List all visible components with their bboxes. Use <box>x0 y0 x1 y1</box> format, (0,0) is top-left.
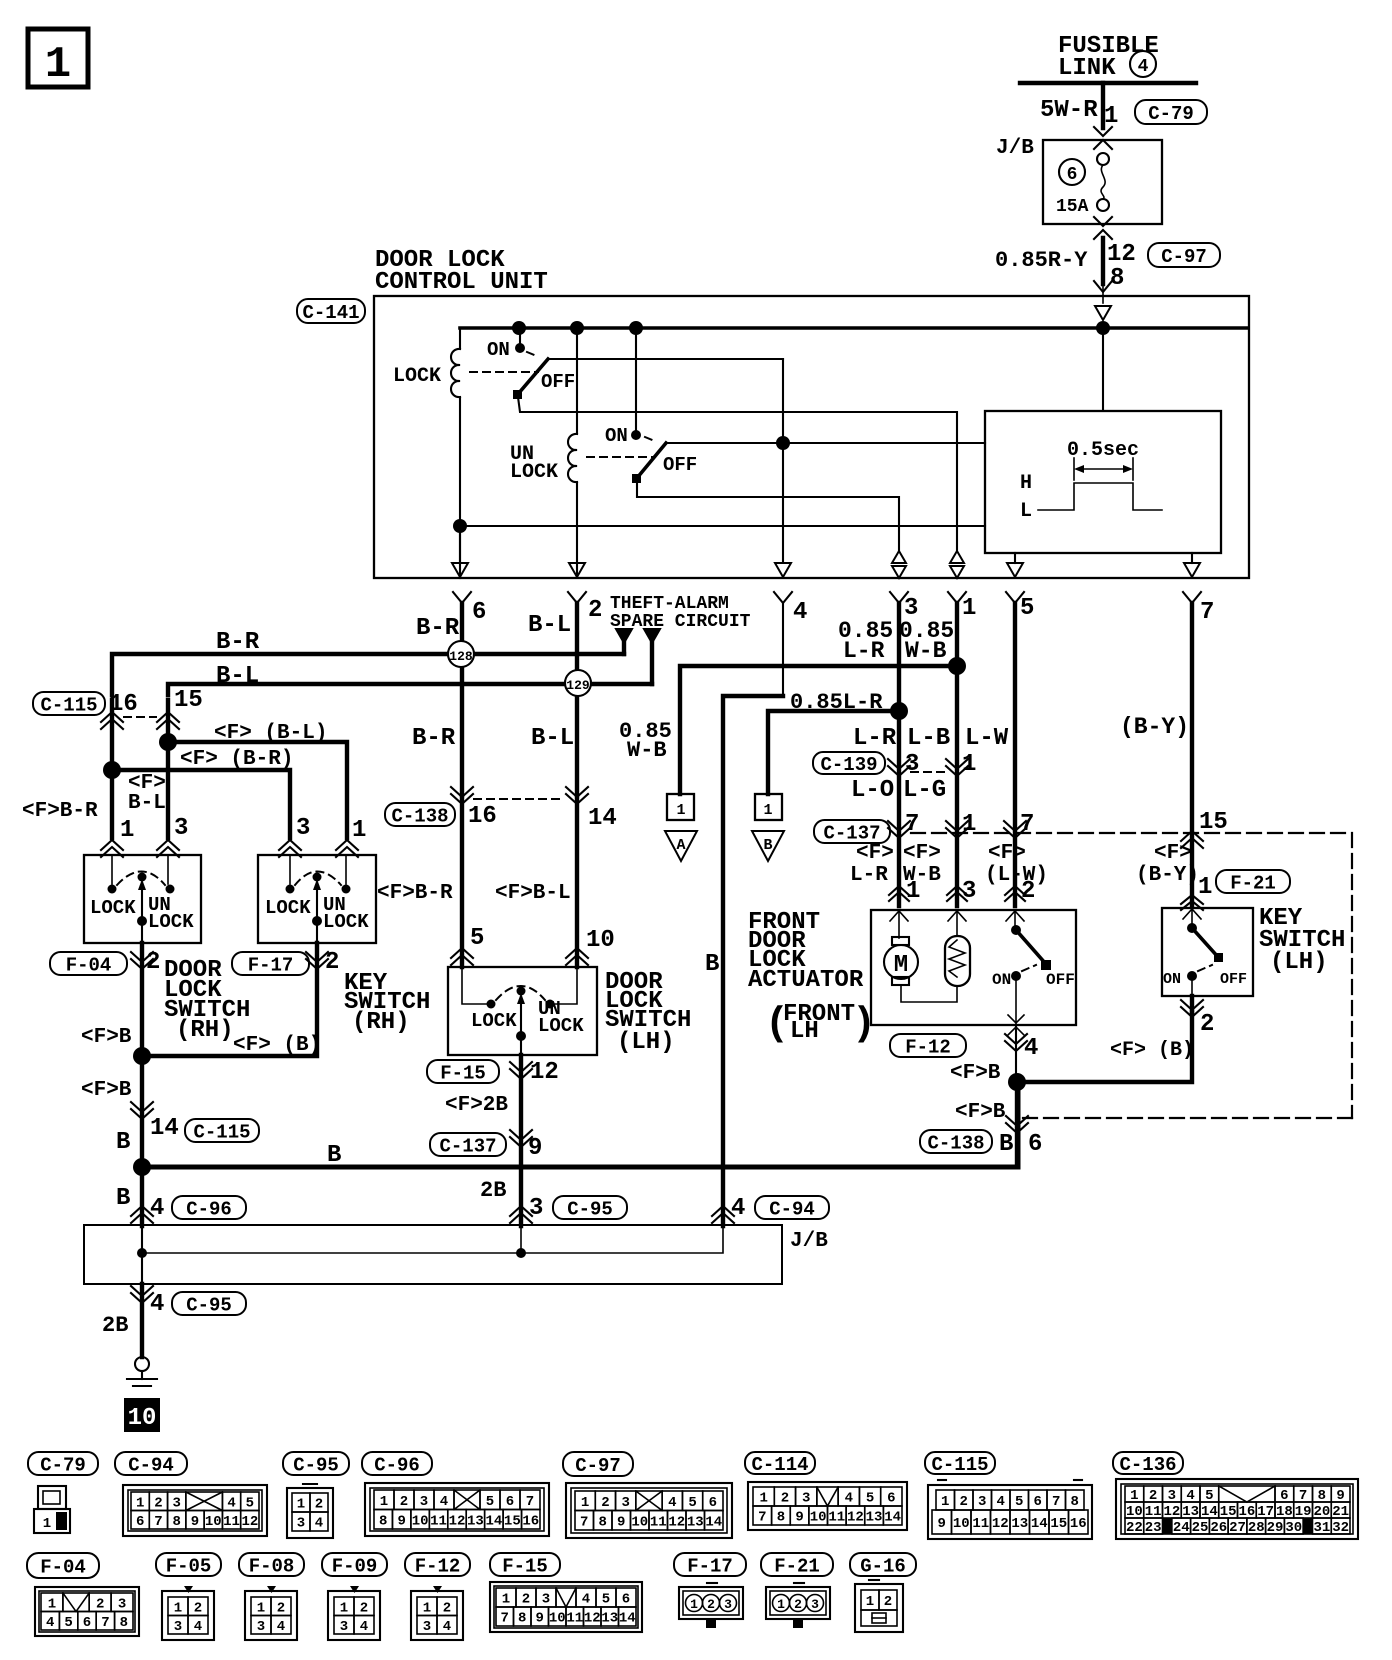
svg-text:C-138: C-138 <box>391 805 448 827</box>
svg-text:30: 30 <box>1285 1520 1302 1536</box>
wire B down to ground bus <box>140 1056 144 1226</box>
legend F-12 label <box>405 1553 470 1576</box>
svg-text:11: 11 <box>972 1516 989 1532</box>
J/B entry 4 C-96 <box>131 1206 153 1216</box>
svg-text:5: 5 <box>1020 595 1034 622</box>
lock relay ON contact <box>519 328 521 348</box>
svg-text:CONTROL UNIT: CONTROL UNIT <box>375 269 548 296</box>
wire F B-R to key switch RH <box>112 770 290 838</box>
wire to door lock switch RH pin1 <box>110 700 114 838</box>
node: bus dot 2 <box>570 321 584 335</box>
svg-text:LOCK: LOCK <box>323 911 369 933</box>
svg-text:16: 16 <box>468 803 497 830</box>
svg-text:14: 14 <box>619 1611 636 1627</box>
svg-text:<F>: <F> <box>856 842 894 865</box>
svg-text:3: 3 <box>621 1495 629 1511</box>
svg-text:<F>: <F> <box>903 842 941 865</box>
node jb1 <box>137 1248 147 1258</box>
theft-alarm stub arrow 1 <box>616 629 632 643</box>
svg-text:F-04: F-04 <box>66 954 112 976</box>
svg-text:2: 2 <box>154 1495 162 1511</box>
J/B exit 4 C-95 <box>131 1286 153 1296</box>
svg-text:2: 2 <box>960 1494 968 1510</box>
svg-text:C-114: C-114 <box>751 1454 808 1476</box>
svg-text:2: 2 <box>315 1497 323 1513</box>
svg-text:7: 7 <box>101 1615 109 1631</box>
legend C-79 connector <box>38 1486 66 1509</box>
svg-text:3: 3 <box>296 815 310 842</box>
node B bus <box>133 1158 151 1176</box>
svg-text:4: 4 <box>793 599 807 626</box>
svg-text:LOCK: LOCK <box>471 1010 517 1032</box>
svg-text:1: 1 <box>866 1594 874 1610</box>
svg-text:1: 1 <box>502 1592 510 1608</box>
svg-text:F-17: F-17 <box>248 954 294 976</box>
C-97 label <box>1148 243 1220 267</box>
svg-text:<F>B: <F>B <box>81 1026 132 1049</box>
junction block J/B (fuse 6) <box>1043 140 1162 224</box>
svg-text:C-95: C-95 <box>293 1454 339 1476</box>
svg-text:7: 7 <box>1200 599 1214 626</box>
legend F-15 connector <box>490 1582 642 1632</box>
actuator switch <box>1014 910 1016 929</box>
svg-text:2B: 2B <box>480 1178 506 1203</box>
svg-text:ON: ON <box>605 425 628 447</box>
svg-text:1: 1 <box>380 1494 388 1510</box>
svg-text:LOCK: LOCK <box>148 911 194 933</box>
svg-text:L: L <box>1020 500 1032 523</box>
svg-text:6: 6 <box>622 1592 630 1608</box>
svg-text:6: 6 <box>506 1494 514 1510</box>
svg-text:29: 29 <box>1267 1520 1284 1536</box>
svg-text:1: 1 <box>962 751 976 778</box>
svg-text:<F>B-R: <F>B-R <box>377 882 453 905</box>
pin 1 <box>948 592 966 603</box>
svg-text:4: 4 <box>227 1495 235 1511</box>
terminal box 1 (B) <box>755 794 782 820</box>
svg-text:1: 1 <box>340 1600 348 1616</box>
svg-text:1: 1 <box>257 1600 265 1616</box>
svg-text:4: 4 <box>443 1619 451 1635</box>
svg-text:0.85L-R: 0.85L-R <box>790 690 883 715</box>
wire B ground bus horizontal <box>142 1082 1018 1167</box>
key switch LH box F-21 <box>1162 908 1253 996</box>
svg-text:13: 13 <box>467 1513 484 1529</box>
svg-text:11: 11 <box>650 1514 667 1530</box>
svg-text:9: 9 <box>191 1514 199 1530</box>
svg-text:6: 6 <box>709 1495 717 1511</box>
svg-text:L-R: L-R <box>853 725 897 752</box>
svg-text:F-08: F-08 <box>249 1555 295 1577</box>
svg-text:LOCK: LOCK <box>393 365 441 388</box>
svg-text:10: 10 <box>412 1513 429 1529</box>
contacts <box>108 885 117 894</box>
svg-text:LOCK: LOCK <box>90 897 136 919</box>
svg-text:12: 12 <box>584 1611 601 1627</box>
svg-text:11: 11 <box>430 1513 447 1529</box>
svg-text:10: 10 <box>810 1510 827 1526</box>
lock relay blade <box>518 359 548 394</box>
timer box <box>985 411 1221 553</box>
legend C-94 label <box>115 1452 187 1475</box>
ground ref box 10 <box>124 1398 160 1432</box>
timer arrow span <box>1073 458 1075 480</box>
svg-text:C-137: C-137 <box>439 1135 496 1157</box>
svg-text:11: 11 <box>566 1611 583 1627</box>
svg-text:<F>B-L: <F>B-L <box>495 882 571 905</box>
svg-text:5: 5 <box>470 925 484 952</box>
connector C-115 pin 14 <box>131 1102 153 1112</box>
wire 2B to ground <box>140 1284 144 1357</box>
svg-text:10: 10 <box>586 927 615 954</box>
svg-text:7: 7 <box>154 1514 162 1530</box>
svg-text:B-L: B-L <box>528 612 571 639</box>
svg-text:B: B <box>999 1131 1013 1158</box>
J/B internal bus <box>142 1226 723 1253</box>
svg-text:12: 12 <box>449 1513 466 1529</box>
svg-text:7: 7 <box>1052 1494 1060 1510</box>
svg-text:5: 5 <box>246 1495 254 1511</box>
svg-text:C-95: C-95 <box>186 1294 232 1316</box>
control unit box C-141 <box>374 296 1249 578</box>
svg-text:2: 2 <box>781 1491 789 1507</box>
svg-text:2B: 2B <box>102 1313 128 1338</box>
wire L-W from pin 5 <box>1013 603 1017 906</box>
svg-text:B: B <box>327 1142 341 1169</box>
svg-text:13: 13 <box>1011 1516 1028 1532</box>
svg-text:F-15: F-15 <box>502 1555 548 1577</box>
svg-text:4: 4 <box>1138 57 1149 77</box>
svg-text:14: 14 <box>485 1513 502 1529</box>
svg-text:31: 31 <box>1313 1520 1330 1536</box>
F-21 pin 1 <box>1181 895 1203 904</box>
svg-text:10: 10 <box>128 1405 157 1432</box>
svg-text:6: 6 <box>1028 1131 1042 1158</box>
svg-text:2: 2 <box>194 1600 202 1616</box>
svg-text:4: 4 <box>194 1619 202 1635</box>
svg-text:15A: 15A <box>1056 197 1089 217</box>
legend F-08 label <box>239 1553 304 1576</box>
svg-text:10: 10 <box>953 1516 970 1532</box>
exit F-15 <box>510 1062 532 1072</box>
svg-text:F-12: F-12 <box>415 1555 461 1577</box>
svg-text:3: 3 <box>724 1597 732 1612</box>
legend G-16 label <box>850 1553 916 1576</box>
svg-text:W-B: W-B <box>627 738 667 763</box>
svg-text:2: 2 <box>588 597 602 624</box>
svg-text:OFF: OFF <box>541 371 575 393</box>
node: bus dot 3 <box>629 321 643 335</box>
legend C-97 label <box>563 1452 633 1476</box>
svg-text:8: 8 <box>1071 1494 1079 1510</box>
svg-text:15: 15 <box>174 687 203 714</box>
svg-text:8: 8 <box>599 1514 607 1530</box>
svg-text:14: 14 <box>884 1510 901 1526</box>
svg-text:3: 3 <box>340 1619 348 1635</box>
legend F-09 connector <box>350 1586 359 1593</box>
node jb2 <box>516 1248 526 1258</box>
svg-text:2: 2 <box>443 1600 451 1616</box>
legend C-114 label <box>745 1452 815 1474</box>
svg-text:1: 1 <box>297 1497 305 1513</box>
legend F-17 label <box>674 1553 746 1576</box>
svg-text:5: 5 <box>64 1615 72 1631</box>
wire B-L from pin 2 <box>575 603 579 795</box>
exit F-12 <box>1008 1015 1024 1023</box>
theft-alarm stub arrow 2 <box>644 629 660 643</box>
actuator pin 2 <box>1005 886 1025 895</box>
pin 4 <box>774 592 792 603</box>
svg-text:<F> (B): <F> (B) <box>1110 1039 1194 1062</box>
svg-text:13: 13 <box>866 1510 883 1526</box>
svg-text:1: 1 <box>43 1516 51 1532</box>
svg-text:9: 9 <box>397 1513 405 1529</box>
unlock relay ON contact <box>635 328 637 433</box>
svg-text:L-R: L-R <box>850 864 888 887</box>
svg-text:12: 12 <box>847 1510 864 1526</box>
svg-text:14: 14 <box>588 805 617 832</box>
exit key switch LH <box>1181 1000 1203 1010</box>
svg-text:<F>: <F> <box>988 842 1026 865</box>
svg-text:2: 2 <box>146 949 160 976</box>
svg-text:W-B: W-B <box>905 638 947 664</box>
svg-text:28: 28 <box>1248 1520 1265 1536</box>
svg-text:B-R: B-R <box>216 629 260 656</box>
svg-text:6: 6 <box>472 599 486 626</box>
J/B entry 4 C-94 <box>712 1206 734 1216</box>
node: bus dot 4 <box>1096 321 1110 335</box>
circled 6 <box>1059 159 1085 185</box>
contacts <box>487 1000 496 1009</box>
svg-text:6: 6 <box>136 1514 144 1530</box>
svg-text:3: 3 <box>529 1195 543 1222</box>
svg-text:5: 5 <box>688 1495 696 1511</box>
svg-text:12: 12 <box>992 1516 1009 1532</box>
svg-text:3: 3 <box>811 1597 819 1612</box>
legend C-94 connector <box>123 1485 267 1536</box>
legend C-95 connector <box>303 1483 317 1485</box>
wire: pin4 column <box>782 359 784 562</box>
svg-text:2: 2 <box>1200 1011 1214 1038</box>
svg-text:<F> (B-L): <F> (B-L) <box>214 722 327 745</box>
svg-text:F-09: F-09 <box>332 1555 378 1577</box>
svg-text:14: 14 <box>150 1115 179 1142</box>
door lock switch LH box F-15 <box>448 967 597 1055</box>
svg-text:7: 7 <box>758 1510 766 1526</box>
svg-text:3: 3 <box>905 751 919 778</box>
svg-text:3: 3 <box>297 1516 305 1532</box>
wire: internal top bus <box>460 326 1248 330</box>
svg-text:C-136: C-136 <box>1119 1454 1176 1476</box>
dashed actuation line lock relay <box>470 371 538 373</box>
page number box 1 <box>28 29 88 87</box>
pivot arm <box>316 884 318 919</box>
terminal box 1 (A) <box>667 794 694 820</box>
svg-text:2: 2 <box>794 1597 802 1612</box>
svg-text:1: 1 <box>352 817 366 844</box>
legend F-04 connector <box>35 1587 139 1636</box>
svg-text:C-95: C-95 <box>567 1198 613 1220</box>
svg-text:4: 4 <box>315 1516 323 1532</box>
svg-text:2: 2 <box>96 1596 104 1612</box>
svg-text:0.85R-Y: 0.85R-Y <box>995 248 1088 273</box>
node L-R junction <box>890 702 908 720</box>
svg-text:B: B <box>763 837 772 854</box>
svg-text:3: 3 <box>978 1494 986 1510</box>
svg-text:9: 9 <box>536 1611 544 1627</box>
svg-text:LOCK: LOCK <box>538 1015 584 1037</box>
actuator pin 1 <box>889 886 909 895</box>
wire F B-L down <box>575 797 579 967</box>
svg-text:3: 3 <box>802 1491 810 1507</box>
wire 0.85 W-B branch <box>680 666 957 794</box>
svg-text:129: 129 <box>566 678 590 693</box>
wire B-R from pin 6 <box>460 603 464 795</box>
svg-text:16: 16 <box>1070 1516 1087 1532</box>
node W-B junction <box>948 657 966 675</box>
legend F-21 label <box>761 1553 833 1576</box>
svg-text:C-97: C-97 <box>1161 246 1207 268</box>
svg-text:F-05: F-05 <box>166 1555 212 1577</box>
svg-text:14: 14 <box>705 1514 722 1530</box>
node 129 <box>565 670 591 696</box>
svg-text:5: 5 <box>1015 1494 1023 1510</box>
svg-text:3: 3 <box>118 1596 126 1612</box>
legend C-95 label <box>283 1452 349 1475</box>
svg-text:<F> (B-R): <F> (B-R) <box>180 748 293 771</box>
input arrow into control unit <box>1095 306 1111 320</box>
svg-text:13: 13 <box>687 1514 704 1530</box>
svg-text:F-21: F-21 <box>1230 872 1276 894</box>
svg-text:<F>2B: <F>2B <box>445 1094 508 1117</box>
svg-text:5: 5 <box>866 1491 874 1507</box>
legend F-12 connector <box>433 1586 442 1593</box>
svg-text:6: 6 <box>1034 1494 1042 1510</box>
svg-text:J/B: J/B <box>996 137 1034 160</box>
legend C-96 connector <box>365 1483 549 1536</box>
node: pin4 junction <box>776 436 790 450</box>
svg-text:4: 4 <box>360 1619 368 1635</box>
svg-text:1: 1 <box>174 1600 182 1616</box>
svg-text:OFF: OFF <box>1046 971 1075 989</box>
node split B-L <box>159 733 177 751</box>
wire: lock pivot to pin4 column <box>548 358 783 360</box>
C-79 label <box>1135 100 1207 124</box>
svg-text:2: 2 <box>325 949 339 976</box>
svg-text:1: 1 <box>136 1495 144 1511</box>
svg-text:128: 128 <box>449 649 473 664</box>
svg-text:2: 2 <box>884 1594 892 1610</box>
svg-text:12: 12 <box>668 1514 685 1530</box>
node: bus dot 1 <box>512 321 526 335</box>
svg-text:C-79: C-79 <box>40 1454 86 1476</box>
pivot arm <box>520 998 522 1034</box>
pin labels key switch RH <box>279 840 301 850</box>
svg-text:1: 1 <box>423 1600 431 1616</box>
legend F-21 connector <box>794 1582 804 1584</box>
svg-text:(RH): (RH) <box>176 1017 234 1044</box>
svg-text:1: 1 <box>1198 874 1212 901</box>
wire join to key switch LH <box>1017 1012 1192 1082</box>
svg-text:ACTUATOR: ACTUATOR <box>748 967 864 994</box>
wire B-Y from pin 7 <box>1190 603 1194 906</box>
connector C-115 row <box>33 692 105 715</box>
exit F-17 <box>306 952 328 962</box>
svg-text:3: 3 <box>174 1619 182 1635</box>
svg-text:4: 4 <box>668 1495 676 1511</box>
svg-text:LH: LH <box>790 1018 819 1045</box>
svg-text:2: 2 <box>522 1592 530 1608</box>
svg-text:9: 9 <box>528 1135 542 1162</box>
svg-text:13: 13 <box>601 1611 618 1627</box>
svg-text:1: 1 <box>45 40 71 90</box>
svg-text:2: 2 <box>1021 878 1035 905</box>
svg-text:THEFT-ALARM: THEFT-ALARM <box>610 594 729 614</box>
svg-text:11: 11 <box>223 1514 240 1530</box>
connector C-137 on 2B wire <box>510 1130 532 1140</box>
svg-text:27: 27 <box>1229 1520 1246 1536</box>
svg-text:B-R: B-R <box>416 615 460 642</box>
svg-text:2: 2 <box>360 1600 368 1616</box>
svg-text:A: A <box>676 837 685 854</box>
legend F-04 label <box>27 1553 99 1578</box>
wire 0.85R-Y <box>1101 238 1105 284</box>
dashed rect around F circuits / C-137 links <box>911 832 1352 834</box>
pin 6 <box>453 592 471 603</box>
motor M <box>898 910 900 938</box>
svg-text:6: 6 <box>83 1615 91 1631</box>
pin 3 <box>890 592 908 603</box>
svg-text:9: 9 <box>938 1516 946 1532</box>
ground symbol <box>135 1357 149 1371</box>
svg-text:B: B <box>116 1185 130 1212</box>
svg-text:9: 9 <box>617 1514 625 1530</box>
svg-text:H: H <box>1020 472 1032 495</box>
key switch RH box F-17 <box>258 855 376 943</box>
goto arrow A <box>665 831 697 861</box>
svg-text:F-17: F-17 <box>687 1555 733 1577</box>
svg-text:7: 7 <box>501 1611 509 1627</box>
svg-text:4: 4 <box>150 1291 164 1318</box>
svg-text:ON: ON <box>1163 971 1181 988</box>
svg-text:C-94: C-94 <box>128 1454 174 1476</box>
svg-text:4: 4 <box>997 1494 1005 1510</box>
svg-text:4: 4 <box>582 1592 590 1608</box>
legend F-08 connector <box>267 1586 276 1593</box>
svg-text:4: 4 <box>1024 1035 1038 1062</box>
svg-text:8: 8 <box>1110 265 1124 292</box>
J/B entry 3 C-95 <box>510 1206 532 1216</box>
svg-text:3: 3 <box>174 815 188 842</box>
svg-text:M: M <box>894 952 908 979</box>
wire B-R horizontal <box>112 654 624 695</box>
svg-text:G-16: G-16 <box>860 1555 906 1577</box>
svg-text:8: 8 <box>777 1510 785 1526</box>
connector C-139 row <box>813 752 885 774</box>
legend C-136 label <box>1113 1452 1183 1474</box>
svg-text:2: 2 <box>400 1494 408 1510</box>
svg-text:C-139: C-139 <box>820 754 877 776</box>
node F-04/F-17 join <box>133 1047 151 1065</box>
svg-text:C-94: C-94 <box>769 1198 815 1220</box>
svg-text:(RH): (RH) <box>352 1009 410 1036</box>
svg-text:4: 4 <box>845 1491 853 1507</box>
svg-text:0.5sec: 0.5sec <box>1067 439 1139 462</box>
junction block J/B bottom box <box>84 1225 782 1284</box>
wire F B-R down <box>460 797 464 967</box>
svg-text:F-04: F-04 <box>40 1556 86 1578</box>
connector C-137 row <box>814 820 890 843</box>
